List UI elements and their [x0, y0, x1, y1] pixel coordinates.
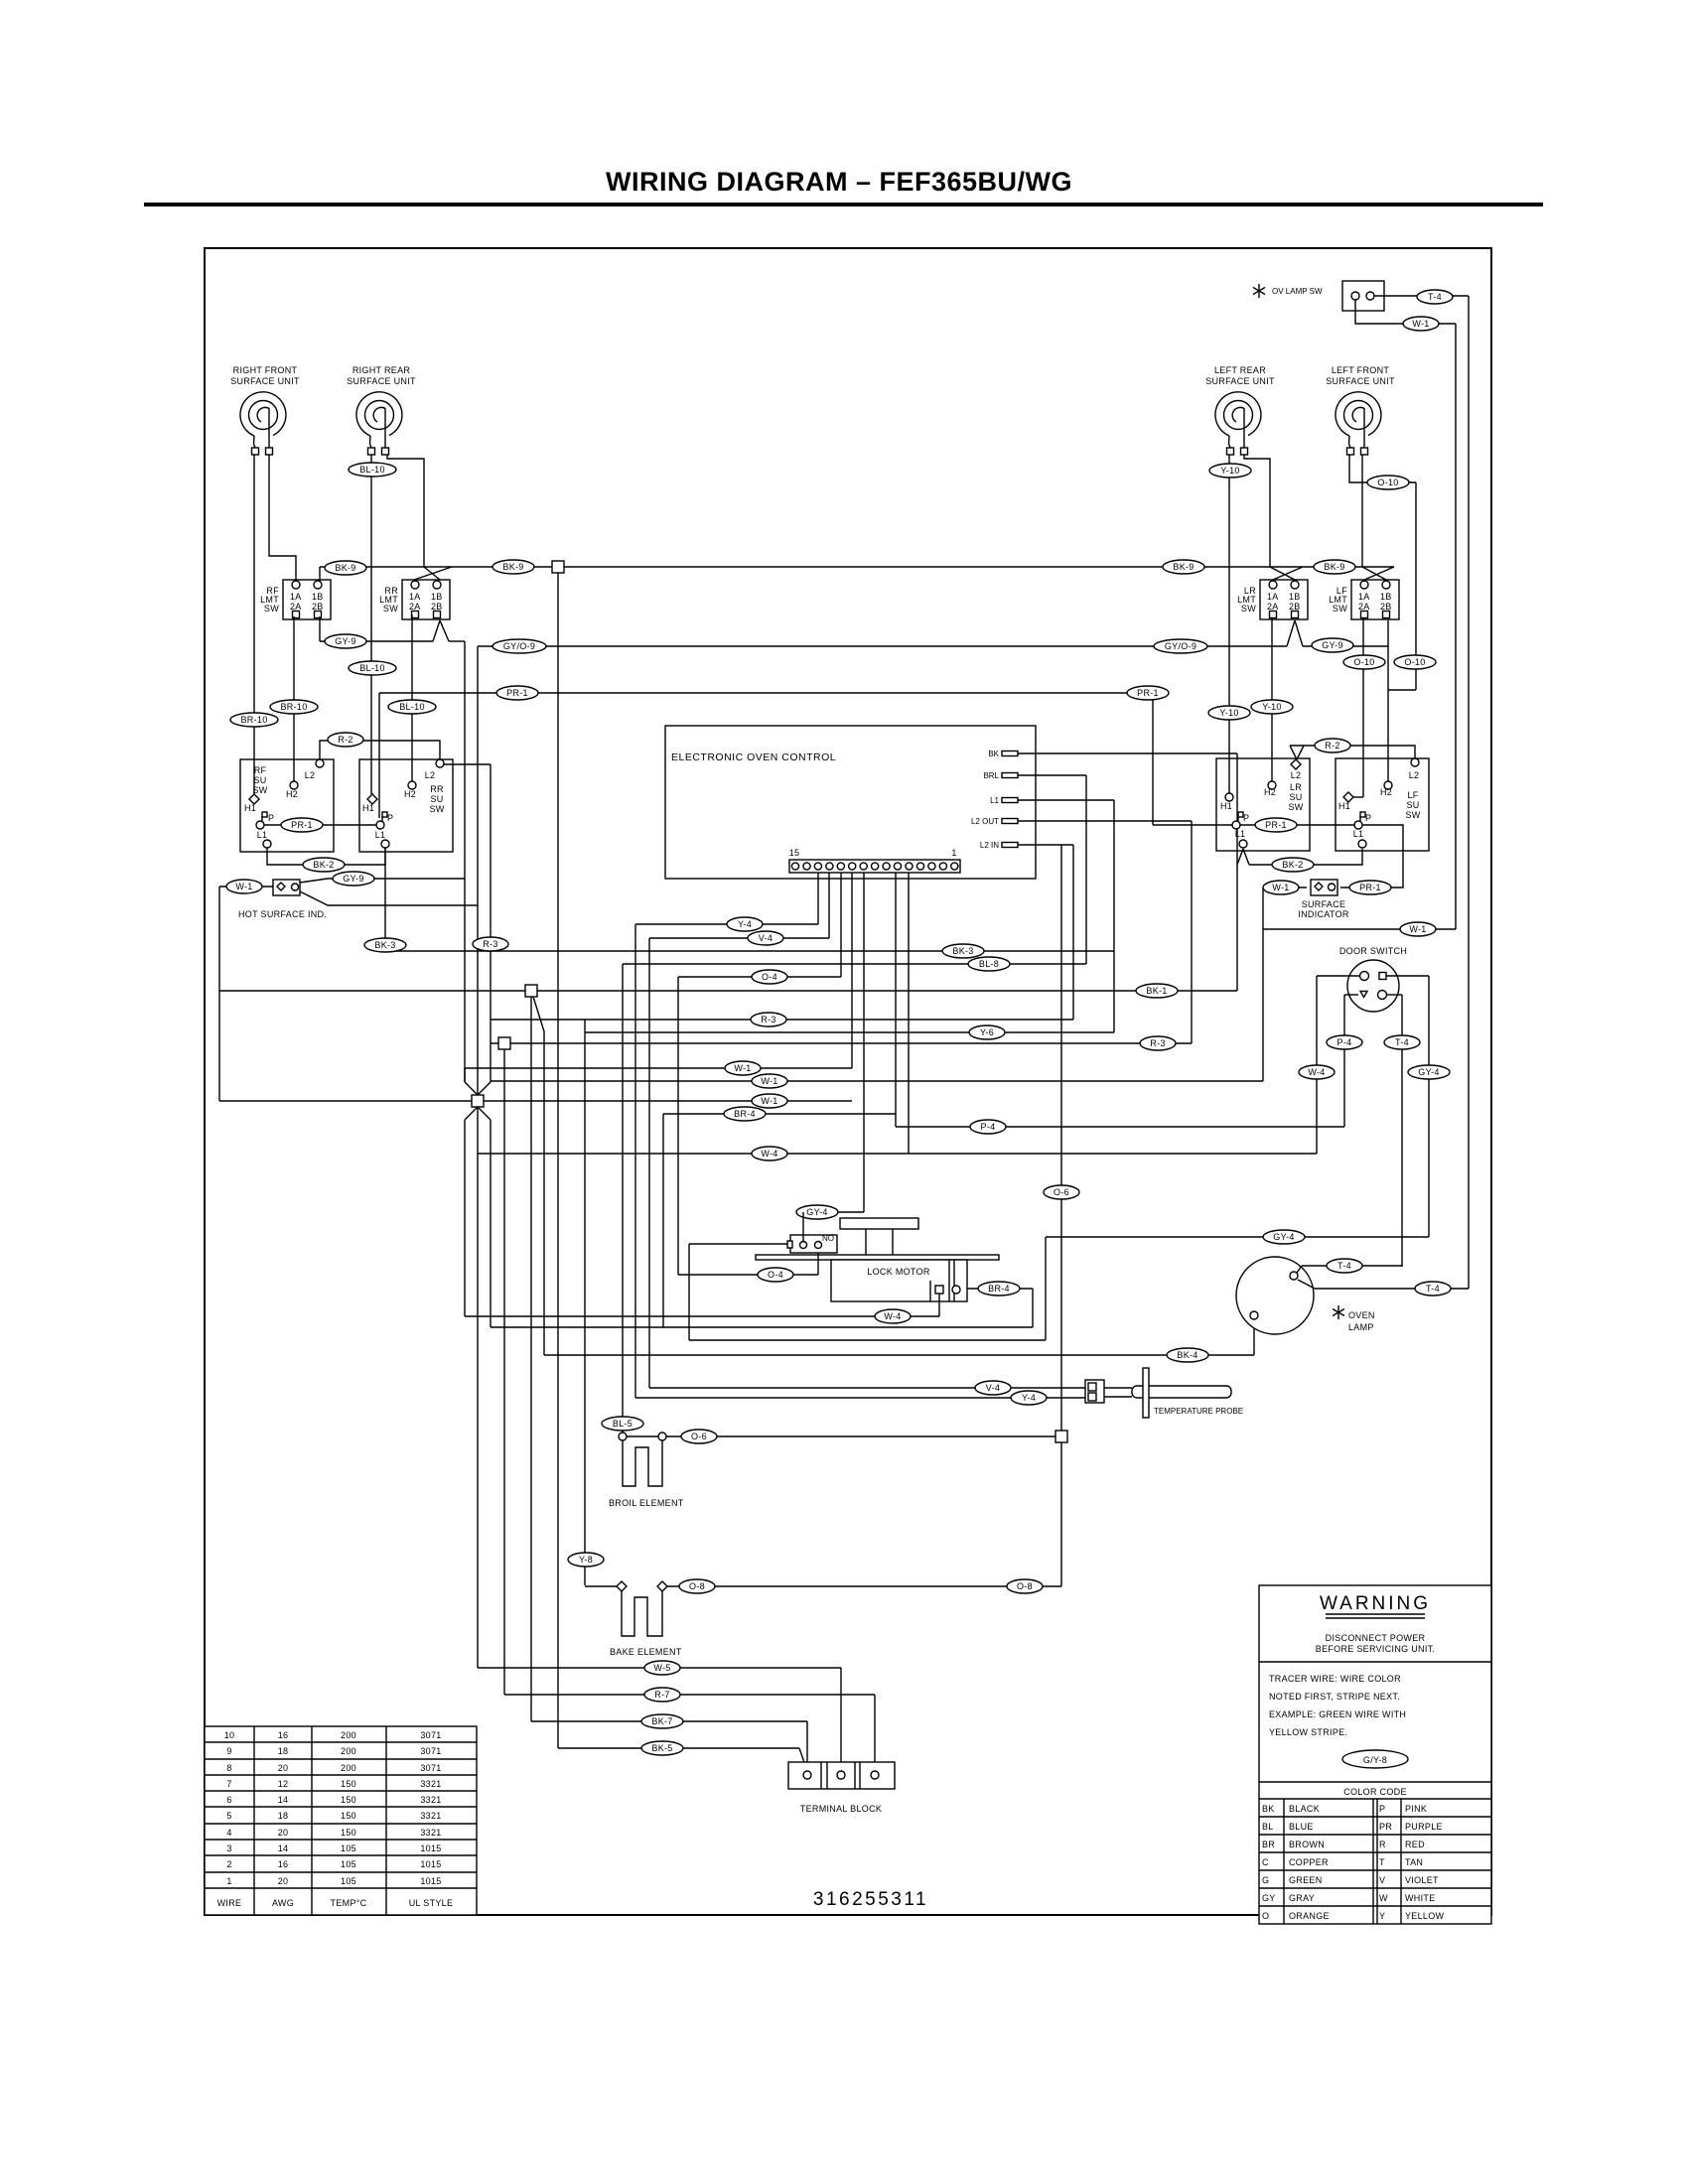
wire label T-4	[1384, 1035, 1420, 1049]
svg-text:T-4: T-4	[1337, 1261, 1351, 1271]
asterisk	[1253, 284, 1265, 298]
svg-text:O-10: O-10	[1353, 657, 1374, 667]
wire label W-1	[226, 880, 262, 893]
wire Y-4 probe horizontal	[635, 1397, 1085, 1399]
wire GY-4 door vertical	[1428, 976, 1430, 1237]
door switch terminals	[1360, 972, 1369, 981]
svg-text:GY-4: GY-4	[806, 1207, 827, 1217]
svg-text:SW: SW	[1405, 810, 1420, 820]
svg-text:1A: 1A	[1358, 592, 1370, 602]
wire GY/O-9 horizontal	[478, 645, 1287, 647]
svg-text:BK: BK	[1262, 1804, 1275, 1814]
svg-text:150: 150	[341, 1795, 356, 1805]
junction node BK-9	[552, 561, 564, 573]
wire label GY-4	[1263, 1230, 1305, 1244]
svg-text:T-4: T-4	[1428, 292, 1442, 302]
svg-text:W-4: W-4	[884, 1311, 901, 1321]
wire label BK-1	[1136, 984, 1178, 998]
wire O-10 LF 2A vertical	[1362, 616, 1364, 797]
svg-text:SW: SW	[252, 785, 267, 795]
RR L1 terminal	[381, 840, 389, 848]
wire label GY-4	[796, 1205, 838, 1219]
svg-text:P-4: P-4	[981, 1122, 996, 1132]
RF H1 terminal	[249, 794, 259, 804]
svg-text:BK: BK	[988, 750, 999, 758]
svg-text:R-3: R-3	[1150, 1038, 1165, 1048]
wire label BL-10	[388, 700, 436, 714]
svg-text:BK-3: BK-3	[952, 946, 973, 956]
svg-text:LAMP: LAMP	[1348, 1322, 1374, 1332]
wire GY-4 loop vertical	[688, 1244, 690, 1340]
svg-text:1A: 1A	[290, 592, 302, 602]
svg-text:16: 16	[278, 1859, 289, 1869]
svg-text:W-1: W-1	[761, 1076, 777, 1086]
svg-text:SURFACE UNIT: SURFACE UNIT	[1205, 376, 1275, 386]
wire label BK-9	[492, 560, 534, 574]
svg-text:R-3: R-3	[483, 939, 497, 949]
wire label V-4	[748, 931, 783, 945]
svg-text:20: 20	[278, 1876, 289, 1886]
wire W-1 horizontal c left	[219, 1100, 478, 1102]
wire BK-7 drop	[806, 1721, 808, 1771]
svg-text:BR-10: BR-10	[240, 715, 267, 725]
svg-text:TEMPERATURE PROBE: TEMPERATURE PROBE	[1154, 1407, 1243, 1416]
limit switch LR LMT SW	[1237, 580, 1308, 619]
svg-text:3071: 3071	[420, 1730, 441, 1740]
wire O-8 bake horizontal	[666, 1585, 1061, 1587]
wire BK-4 horizontal	[544, 1354, 1254, 1356]
svg-text:15: 15	[789, 848, 800, 858]
wire W-1 to surface indicator	[1263, 887, 1307, 888]
wire GY-4 riser	[802, 1212, 804, 1241]
svg-text:3321: 3321	[420, 1828, 441, 1838]
junction node W star	[472, 1095, 484, 1107]
wire BL-8 horizontal	[623, 963, 1086, 965]
svg-text:PR-1: PR-1	[1265, 820, 1287, 830]
svg-text:BK-9: BK-9	[1324, 562, 1344, 572]
wire BK-2 right with L1 fan	[1237, 849, 1362, 865]
svg-text:R: R	[1379, 1840, 1386, 1849]
wire label T-4	[1327, 1259, 1362, 1273]
LR H1 terminal	[1225, 793, 1233, 801]
wire label BL-10	[349, 661, 396, 675]
wire W-1 horizontal c right	[478, 1100, 852, 1102]
wire PR-1 riser right	[1152, 693, 1154, 825]
svg-text:3321: 3321	[420, 1779, 441, 1789]
svg-text:LR: LR	[1290, 782, 1302, 792]
svg-text:COLOR CODE: COLOR CODE	[1343, 1787, 1407, 1797]
svg-text:316255311: 316255311	[813, 1889, 928, 1910]
wire O-6 broil horizontal	[627, 1435, 1055, 1437]
svg-text:SU: SU	[430, 794, 443, 804]
wire crossing at LF LMT top	[1362, 567, 1394, 580]
wire PR-1 P-P left	[264, 824, 376, 826]
wire O-4 horizontal	[678, 976, 841, 978]
wire Y-10 LR H1 lead	[1228, 455, 1230, 793]
wire label BL-8	[968, 957, 1010, 971]
RF H2 terminal	[290, 781, 298, 789]
svg-text:W-4: W-4	[1308, 1067, 1325, 1077]
door switch	[1347, 960, 1399, 1012]
wire door switch right bottom	[1386, 994, 1402, 996]
svg-text:L1: L1	[990, 796, 999, 805]
svg-text:G/Y-8: G/Y-8	[1363, 1755, 1387, 1765]
LR L2 terminal	[1291, 759, 1301, 769]
svg-text:GRAY: GRAY	[1289, 1893, 1315, 1903]
wire label PR-1	[496, 686, 538, 700]
wire R-7 horizontal	[504, 1694, 875, 1696]
svg-text:SURFACE: SURFACE	[1302, 899, 1346, 909]
wire fan RR 2B	[433, 620, 449, 641]
svg-text:T-4: T-4	[1395, 1037, 1409, 1047]
svg-text:BAKE ELEMENT: BAKE ELEMENT	[610, 1647, 682, 1657]
svg-text:TEMP°C: TEMP°C	[331, 1898, 367, 1908]
svg-text:O-8: O-8	[689, 1581, 705, 1591]
warning box	[1259, 1585, 1491, 1924]
wire label Y-4	[727, 917, 763, 931]
wire T-4 lamp horizontal a	[1302, 1265, 1403, 1267]
svg-text:W-1: W-1	[761, 1096, 777, 1106]
wire O-10 vertical	[1415, 482, 1417, 690]
svg-text:BL: BL	[1262, 1822, 1274, 1832]
wire label BR-4	[978, 1282, 1020, 1296]
RR P terminal	[376, 821, 384, 829]
svg-text:L1: L1	[375, 830, 386, 840]
svg-text:O: O	[1262, 1911, 1269, 1921]
wire label Y-6	[969, 1025, 1005, 1039]
svg-text:BK-4: BK-4	[1177, 1350, 1197, 1360]
wire V-4 horizontal	[649, 937, 829, 939]
svg-text:8: 8	[226, 1763, 231, 1773]
wire BR-4 loop right	[1032, 1289, 1034, 1327]
oven lamp	[1236, 1257, 1314, 1334]
wire EOC drop x847	[840, 873, 842, 977]
svg-text:GREEN: GREEN	[1289, 1875, 1323, 1885]
svg-text:200: 200	[341, 1746, 356, 1756]
wire label PR-1	[1255, 818, 1297, 832]
wire EOC drop x835	[828, 873, 830, 938]
svg-text:BK-9: BK-9	[335, 563, 355, 573]
svg-text:200: 200	[341, 1763, 356, 1773]
surface indicator right	[1311, 880, 1337, 895]
wire label Y-10	[1208, 706, 1250, 720]
svg-text:L2: L2	[1409, 770, 1420, 780]
svg-text:PR-1: PR-1	[1359, 883, 1381, 892]
svg-text:BR: BR	[1262, 1840, 1275, 1849]
svg-text:2A: 2A	[290, 602, 302, 612]
limit switch RF LMT SW	[260, 580, 331, 619]
svg-text:SU: SU	[1406, 800, 1419, 810]
wire label W-4	[1299, 1065, 1335, 1079]
svg-text:BL-10: BL-10	[359, 663, 385, 673]
junction node A	[525, 985, 537, 997]
wire GY-9 RF 2B vertical	[319, 616, 321, 641]
wire W-5 horizontal	[478, 1667, 841, 1669]
wire label BR-10	[270, 700, 318, 714]
wire label W-1	[1400, 922, 1436, 936]
wire BL-5 vertical	[622, 964, 624, 1433]
wire W-1 to hot surface ind	[219, 886, 273, 887]
lock motor assembly	[756, 1218, 999, 1301]
svg-text:SURFACE UNIT: SURFACE UNIT	[347, 376, 416, 386]
wire R-2 left	[320, 741, 440, 760]
wire GY-4 lock return	[689, 1339, 1046, 1341]
svg-text:OVEN: OVEN	[1348, 1310, 1375, 1320]
svg-text:3321: 3321	[420, 1811, 441, 1821]
junction diagonal at node A	[533, 997, 544, 1031]
svg-text:P: P	[1379, 1804, 1385, 1814]
svg-text:H2: H2	[404, 789, 416, 799]
svg-text:Y-6: Y-6	[980, 1027, 994, 1037]
svg-text:5: 5	[226, 1811, 231, 1821]
wire label P-4	[970, 1120, 1006, 1134]
svg-text:V-4: V-4	[759, 933, 773, 943]
svg-text:BL-10: BL-10	[359, 465, 385, 475]
junction node O-6	[1055, 1431, 1067, 1442]
svg-text:BK-3: BK-3	[374, 940, 395, 950]
svg-text:1B: 1B	[312, 592, 324, 602]
svg-text:BK-1: BK-1	[1146, 986, 1167, 996]
wire Y-4 vertical to probe	[634, 924, 636, 1398]
svg-text:16: 16	[278, 1730, 289, 1740]
LF H2 terminal	[1384, 781, 1392, 789]
wire label G/Y-8	[1342, 1750, 1408, 1768]
broil element	[619, 1433, 627, 1440]
wire LR coil to LMT	[1244, 455, 1270, 567]
wire label O-6	[1044, 1185, 1079, 1199]
svg-text:SU: SU	[253, 775, 266, 785]
wire P-4 horizontal	[896, 1126, 1344, 1128]
svg-text:GY/O-9: GY/O-9	[1165, 641, 1196, 651]
wire GY-9 vertical	[464, 641, 466, 1082]
RF L1 terminal	[263, 840, 271, 848]
wire W-4 horizontal	[478, 1153, 1317, 1155]
surface switch LR SU SW	[1216, 758, 1310, 851]
surface switch RR SU SW	[359, 759, 453, 852]
wire label R-2	[1315, 739, 1350, 752]
EOC terminal strip	[789, 860, 960, 873]
svg-text:WIRE: WIRE	[217, 1898, 242, 1908]
svg-text:BRL: BRL	[983, 771, 999, 780]
svg-text:DOOR SWITCH: DOOR SWITCH	[1339, 946, 1407, 956]
wire jog to LF H1	[1353, 796, 1363, 798]
limit switch LF LMT SW	[1329, 580, 1399, 619]
svg-text:WIRING DIAGRAM – FEF365BU/WG: WIRING DIAGRAM – FEF365BU/WG	[606, 167, 1072, 197]
limit switch RR LMT SW	[379, 580, 450, 619]
svg-text:GY-4: GY-4	[1273, 1232, 1294, 1242]
wire label O-8	[1007, 1579, 1043, 1593]
wire BK-9 to RF 1B	[319, 567, 321, 581]
svg-text:R-7: R-7	[654, 1690, 669, 1700]
svg-text:O-10: O-10	[1377, 478, 1398, 487]
svg-text:W-5: W-5	[653, 1663, 670, 1673]
wire W-1 horizontal top right	[1263, 928, 1456, 930]
wire PR-1 to surface indicator	[1340, 825, 1403, 887]
wire BR-10 RF H1 lead	[253, 455, 255, 794]
wire W-1 right vertical	[1262, 887, 1264, 1081]
svg-text:NOTED FIRST, STRIPE NEXT.: NOTED FIRST, STRIPE NEXT.	[1269, 1692, 1400, 1702]
svg-text:9: 9	[226, 1746, 231, 1756]
svg-text:NO: NO	[822, 1234, 834, 1243]
svg-text:1B: 1B	[1289, 592, 1301, 602]
svg-text:PURPLE: PURPLE	[1405, 1822, 1443, 1832]
svg-text:LOCK MOTOR: LOCK MOTOR	[867, 1267, 930, 1277]
svg-text:TAN: TAN	[1405, 1857, 1423, 1867]
wire label GY/O-9	[1154, 639, 1207, 653]
wire label GY-9	[1312, 638, 1353, 652]
junction diagonals at white star node	[465, 1082, 491, 1120]
svg-text:COPPER: COPPER	[1289, 1857, 1329, 1867]
wire W-4 lock horizontal	[465, 1315, 939, 1317]
wire R-7 drop	[874, 1695, 876, 1771]
svg-text:1015: 1015	[420, 1876, 441, 1886]
surface switch RF SU SW	[240, 759, 334, 852]
wire O-10 jog	[1388, 689, 1416, 691]
svg-text:SW: SW	[1333, 604, 1347, 614]
svg-text:PR-1: PR-1	[506, 688, 528, 698]
wire BK-9 horizontal	[320, 566, 1394, 568]
svg-text:H1: H1	[362, 803, 374, 813]
svg-text:1015: 1015	[420, 1859, 441, 1869]
wire L2 OUT vertical	[1191, 821, 1193, 1043]
wire label BL-5	[602, 1417, 643, 1431]
svg-text:INDICATOR: INDICATOR	[1298, 909, 1349, 919]
svg-text:200: 200	[341, 1730, 356, 1740]
wire BK-3 horizontal	[385, 950, 1114, 952]
wire GY-9 right horizontal	[1303, 645, 1388, 647]
wire fan LR 2B	[1287, 620, 1303, 646]
wire label P-4	[1327, 1035, 1362, 1049]
wire BK-5 diagonal drop	[799, 1748, 807, 1771]
svg-text:12: 12	[278, 1779, 289, 1789]
wire label Y-10	[1209, 464, 1251, 478]
wire door switch right top	[1386, 975, 1429, 977]
wire Y-10 LR 2A vertical	[1271, 614, 1273, 781]
wire BK-5 vertical	[557, 573, 559, 1748]
wire T-4 door vertical	[1401, 995, 1403, 1266]
wire BK-7 horizontal	[531, 1720, 807, 1722]
wire W-4 riser	[938, 1294, 940, 1316]
svg-text:14: 14	[278, 1843, 289, 1853]
wire BK-1 vertical	[1236, 753, 1238, 991]
wire V-4 probe horizontal	[649, 1387, 1085, 1389]
svg-text:W: W	[1379, 1893, 1388, 1903]
wire label BK-2	[303, 858, 345, 872]
svg-text:P-4: P-4	[1337, 1037, 1352, 1047]
wire label V-4	[975, 1381, 1011, 1395]
svg-text:PINK: PINK	[1405, 1804, 1427, 1814]
svg-text:18: 18	[278, 1811, 289, 1821]
wire BK-5 horizontal	[558, 1747, 799, 1749]
svg-text:OV LAMP SW: OV LAMP SW	[1272, 287, 1323, 296]
wire bake left lead	[585, 1585, 618, 1587]
wire GY-4 loop vertical right	[1045, 1237, 1047, 1340]
svg-text:3071: 3071	[420, 1746, 441, 1756]
wire R-2 right	[1290, 746, 1415, 760]
svg-text:SW: SW	[429, 804, 444, 814]
wire O-4 riser	[817, 1253, 819, 1275]
surface unit RR coil	[347, 365, 416, 455]
wire GY-4 horizontal long	[1046, 1236, 1429, 1238]
svg-text:L1: L1	[1235, 829, 1246, 839]
wire label O-10	[1343, 655, 1385, 669]
wire label BK-9	[1314, 560, 1355, 574]
svg-text:2A: 2A	[1358, 602, 1370, 612]
svg-text:R-3: R-3	[761, 1015, 775, 1024]
svg-text:TRACER WIRE: WIRE COLOR: TRACER WIRE: WIRE COLOR	[1269, 1674, 1401, 1684]
wire R-3 vertical	[490, 764, 492, 1082]
wire EOC drop x824	[817, 873, 819, 924]
wire label R-3	[751, 1013, 786, 1026]
wire BL-10 RR H1 lead	[370, 455, 372, 794]
wire BR-4 horizontal	[663, 1113, 896, 1115]
svg-text:VIOLET: VIOLET	[1405, 1875, 1439, 1885]
svg-text:Y-8: Y-8	[579, 1555, 593, 1565]
wire PR-1 P-P right	[1153, 824, 1354, 826]
svg-text:10: 10	[224, 1730, 235, 1740]
wire R-3 horizontal	[491, 1019, 1073, 1021]
wire GY-9 left horizontal 2	[449, 640, 465, 642]
svg-text:H1: H1	[1220, 801, 1232, 811]
wire label R-3	[473, 937, 508, 951]
wire EOC drop x858	[851, 873, 853, 1068]
terminal	[657, 1581, 667, 1591]
svg-text:R-2: R-2	[1325, 741, 1339, 751]
svg-text:BK-2: BK-2	[313, 860, 334, 870]
wire O-4 vertical	[677, 977, 679, 1275]
svg-text:2A: 2A	[409, 602, 421, 612]
wire BL-10 RR 2A vertical	[411, 614, 413, 781]
svg-text:GY-9: GY-9	[1322, 640, 1342, 650]
wire label R-7	[644, 1688, 680, 1702]
svg-text:P: P	[268, 813, 274, 823]
svg-text:18: 18	[278, 1746, 289, 1756]
svg-text:20: 20	[278, 1828, 289, 1838]
svg-text:L2 OUT: L2 OUT	[971, 817, 999, 826]
svg-text:P: P	[387, 813, 393, 823]
wire lock motor lead	[689, 1243, 791, 1245]
wire label GY-9	[333, 872, 374, 886]
svg-text:BLUE: BLUE	[1289, 1822, 1314, 1832]
svg-text:O-4: O-4	[768, 1270, 783, 1280]
svg-text:H2: H2	[286, 789, 298, 799]
svg-text:RED: RED	[1405, 1840, 1425, 1849]
svg-text:BR-4: BR-4	[734, 1109, 756, 1119]
wire label O-10	[1394, 655, 1436, 669]
svg-text:V: V	[1379, 1875, 1385, 1885]
wire label BK-9	[1163, 560, 1204, 574]
wire W-1 horizontal a	[465, 1067, 852, 1069]
RR H2 terminal	[408, 781, 416, 789]
title rule	[144, 203, 1543, 206]
wire Y-4 horizontal	[635, 923, 818, 925]
svg-text:YELLOW STRIPE.: YELLOW STRIPE.	[1269, 1727, 1347, 1737]
svg-text:ELECTRONIC OVEN CONTROL: ELECTRONIC OVEN CONTROL	[671, 751, 836, 763]
wire label PR-1	[281, 818, 323, 832]
svg-text:WHITE: WHITE	[1405, 1893, 1436, 1903]
LF H1 terminal	[1343, 792, 1353, 802]
wire BR-4 vertical	[662, 1114, 664, 1327]
wire RR coil to LMT	[387, 455, 424, 567]
wire Y-6 vertical	[1113, 800, 1115, 1032]
wire BK-7 vertical	[530, 997, 532, 1721]
wire label W-4	[875, 1309, 911, 1323]
svg-text:L2: L2	[425, 770, 436, 780]
wire W-4 door vertical	[1316, 976, 1318, 1154]
svg-text:20: 20	[278, 1763, 289, 1773]
svg-text:W-1: W-1	[1272, 883, 1289, 892]
svg-text:H1: H1	[244, 803, 256, 813]
